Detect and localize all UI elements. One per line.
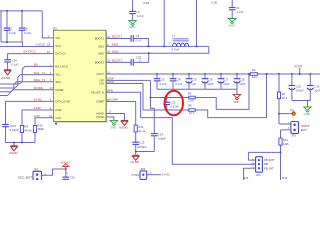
svg-text:GND: GND bbox=[129, 25, 135, 29]
wire C12 to SW2 bbox=[133, 53, 148, 62]
wire MODE bbox=[0, 90, 54, 96]
svg-text:100uF: 100uF bbox=[296, 89, 304, 93]
wire EXTVCC bbox=[8, 54, 54, 60]
svg-text:0.1uF: 0.1uF bbox=[135, 40, 142, 43]
svg-text:EXTVCC: EXTVCC bbox=[23, 50, 36, 54]
svg-text:10uF: 10uF bbox=[239, 82, 246, 86]
node ISP-C21 bbox=[166, 97, 168, 99]
svg-text:JP3: JP3 bbox=[256, 173, 261, 177]
node TP5 bbox=[278, 113, 280, 115]
node FB divider bbox=[280, 152, 282, 154]
wire BOOT1 bbox=[106, 38, 131, 40]
svg-text:C9: C9 bbox=[136, 34, 140, 38]
ground AGND (pin) bbox=[121, 119, 128, 121]
wire AGND stem bbox=[135, 152, 137, 156]
capacitor C15 1uF bbox=[188, 73, 190, 75]
svg-text:C8: C8 bbox=[24, 26, 28, 30]
wire BOOT2 bbox=[106, 61, 131, 63]
svg-text:SYNC: SYNC bbox=[34, 98, 43, 102]
wire VIN rail bbox=[0, 10, 42, 12]
svg-text:49.9: 49.9 bbox=[282, 96, 288, 100]
wire JP3 pin1 to divider bbox=[249, 152, 281, 160]
wire ISP bbox=[106, 79, 151, 81]
capacitor C1 bbox=[231, 0, 233, 8]
wire JP5 to VDDIO bbox=[42, 169, 66, 175]
svg-text:SDA_T1: SDA_T1 bbox=[34, 78, 46, 82]
wire ISN bbox=[106, 83, 143, 85]
svg-text:10.0: 10.0 bbox=[188, 99, 194, 103]
svg-text:R5: R5 bbox=[188, 91, 192, 95]
svg-text:VOUT: VOUT bbox=[294, 65, 303, 69]
ground GND (C2) bbox=[129, 21, 137, 24]
connector JP3 FB select bbox=[256, 157, 263, 173]
svg-text:C13: C13 bbox=[159, 78, 165, 82]
svg-text:SCL: SCL bbox=[55, 73, 61, 77]
capacitor C19 bbox=[309, 73, 311, 75]
resistor R8 10.0 bbox=[189, 109, 195, 112]
svg-text:0.1uF: 0.1uF bbox=[11, 62, 18, 66]
svg-text:GND: GND bbox=[304, 112, 310, 116]
svg-text:SW2: SW2 bbox=[98, 51, 104, 55]
wire SW2 bbox=[106, 46, 209, 53]
svg-text:2.2nF: 2.2nF bbox=[137, 14, 144, 18]
wire to R16 bbox=[280, 153, 282, 181]
svg-text:BOOT2: BOOT2 bbox=[95, 61, 105, 65]
wire COC bbox=[35, 118, 54, 126]
capacitor C16 10uF bbox=[204, 73, 206, 75]
wire SW1 rail bbox=[106, 45, 209, 47]
svg-text:C16: C16 bbox=[207, 78, 213, 82]
connector JP2 VOUT_EXT bbox=[291, 122, 299, 134]
svg-text:21.4k: 21.4k bbox=[138, 129, 145, 133]
wire comp AGND rail bbox=[136, 151, 155, 153]
wire output gnd rail bbox=[292, 100, 310, 102]
capacitor C12 bbox=[130, 59, 132, 66]
wire JP3 pin3 to R15 bbox=[244, 168, 251, 180]
svg-text:VCC: VCC bbox=[55, 44, 61, 48]
capacitor C25 4700pF bbox=[132, 141, 139, 143]
wire AGND rail bbox=[6, 142, 36, 144]
svg-text:VIN: VIN bbox=[55, 36, 60, 40]
wire C9 to SW1 bbox=[133, 39, 148, 47]
wire to AGND bbox=[7, 62, 9, 70]
wire SW1 up (off-sheet) bbox=[163, 0, 165, 46]
resistor R9 bbox=[20, 126, 23, 133]
wire to JP2 pin1 bbox=[279, 123, 291, 125]
svg-text:0.1uF: 0.1uF bbox=[175, 82, 182, 86]
svg-text:VDDIO: VDDIO bbox=[60, 160, 70, 164]
svg-text:EN: EN bbox=[34, 63, 38, 67]
ground AGND (comp) bbox=[132, 154, 139, 156]
svg-text:AGND: AGND bbox=[130, 160, 140, 164]
svg-text:VOUT: VOUT bbox=[96, 72, 104, 76]
svg-text:COMP: COMP bbox=[109, 98, 118, 102]
svg-text:ISN: ISN bbox=[99, 82, 104, 86]
svg-text:COC: COC bbox=[34, 114, 42, 118]
op-amp U1 LT8390A buck-boost controller bbox=[55, 31, 108, 122]
svg-text:BOOT2: BOOT2 bbox=[112, 59, 123, 63]
svg-text:FB_INT: FB_INT bbox=[264, 166, 274, 170]
svg-text:SW2: SW2 bbox=[112, 50, 119, 54]
wire cap GND rail bbox=[157, 88, 237, 90]
svg-text:C18: C18 bbox=[239, 78, 245, 82]
power port VDDIO bbox=[65, 166, 67, 169]
svg-text:SYNC: SYNC bbox=[132, 173, 140, 177]
node VIN-C7 bbox=[6, 10, 8, 12]
resistor R7 49.9 bbox=[278, 73, 280, 75]
wire left edge vertical bbox=[0, 11, 2, 42]
capacitor C21 0.22uF bbox=[166, 98, 168, 103]
svg-text:0.01uF: 0.01uF bbox=[9, 128, 19, 132]
svg-text:SW1: SW1 bbox=[112, 43, 119, 47]
svg-text:10.0: 10.0 bbox=[189, 111, 195, 115]
wire ISP to R5 bbox=[151, 80, 189, 97]
svg-text:VCC_EXT: VCC_EXT bbox=[18, 175, 32, 179]
wire VOUT rail right bbox=[257, 73, 320, 75]
wire FSW bbox=[22, 110, 54, 125]
svg-text:102k: 102k bbox=[283, 142, 290, 146]
svg-text:49.9k: 49.9k bbox=[24, 128, 32, 132]
wire cap bottom bbox=[1, 41, 23, 43]
svg-text:U1: U1 bbox=[53, 27, 57, 31]
svg-text:VDDIO: VDDIO bbox=[35, 43, 45, 47]
ground GND (right) bbox=[304, 107, 312, 110]
svg-text:JP2: JP2 bbox=[291, 134, 296, 138]
svg-text:DITH_SYNC: DITH_SYNC bbox=[55, 100, 70, 104]
svg-text:C15: C15 bbox=[191, 78, 197, 82]
svg-text:1uF: 1uF bbox=[191, 82, 196, 86]
node ISN-C21 bbox=[166, 109, 168, 111]
wire PGND pin bbox=[106, 117, 114, 120]
svg-text:AGND: AGND bbox=[96, 112, 104, 116]
svg-text:COC: COC bbox=[55, 116, 61, 120]
node VIN-C8 bbox=[21, 10, 23, 12]
connector JP4 SYNC bbox=[140, 171, 147, 180]
svg-text:FB_INT_N: FB_INT_N bbox=[91, 90, 104, 94]
capacitor C7 bbox=[6, 11, 8, 28]
svg-text:EN_UVLO: EN_UVLO bbox=[55, 65, 68, 69]
svg-text:PGND: PGND bbox=[96, 115, 104, 119]
svg-text:R16: R16 bbox=[282, 176, 288, 180]
svg-text:BOOT1: BOOT1 bbox=[95, 37, 105, 41]
svg-text:FSW: FSW bbox=[34, 106, 41, 110]
capacitor C20 100uF bbox=[291, 73, 293, 75]
svg-text:GND: GND bbox=[233, 100, 239, 104]
svg-text:150k: 150k bbox=[37, 127, 44, 131]
wire JP2 pin2 bbox=[281, 129, 287, 131]
svg-text:10m: 10m bbox=[252, 75, 258, 79]
capacitor C8 bbox=[21, 11, 23, 28]
svg-text:C2: C2 bbox=[136, 10, 140, 14]
capacitor C46 bbox=[4, 59, 11, 61]
svg-text:4700pF: 4700pF bbox=[137, 145, 147, 149]
svg-text:R8: R8 bbox=[188, 104, 192, 108]
wire R8 to Rsense right bbox=[195, 74, 266, 118]
wire to TP5 bbox=[279, 113, 292, 115]
svg-text:0.1uF: 0.1uF bbox=[159, 82, 166, 86]
wire SCL_T1 bbox=[0, 75, 54, 88]
svg-text:MODE: MODE bbox=[55, 88, 63, 92]
capacitor C26 bbox=[65, 169, 67, 177]
svg-text:R15: R15 bbox=[243, 176, 249, 180]
svg-text:R3: R3 bbox=[252, 68, 256, 72]
svg-text:C1: C1 bbox=[236, 6, 240, 10]
wire GND stem bbox=[307, 101, 309, 107]
svg-text:L1: L1 bbox=[172, 34, 176, 38]
ground GND (C1) bbox=[228, 19, 236, 22]
svg-text:SYNC: SYNC bbox=[162, 173, 171, 177]
wire GND stem bbox=[236, 89, 238, 94]
capacitor C2 bbox=[132, 0, 134, 11]
ground GND (output caps, red) bbox=[233, 95, 241, 98]
capacitor C13 0.1uF bbox=[156, 73, 158, 75]
svg-text:EXT: EXT bbox=[301, 128, 307, 132]
svg-text:0.1uF: 0.1uF bbox=[9, 31, 16, 35]
annotation red circle around C21 bbox=[165, 91, 183, 116]
resistor R11 21.4k bbox=[135, 102, 137, 126]
svg-text:GND: GND bbox=[229, 23, 235, 27]
svg-text:0.1uF: 0.1uF bbox=[24, 31, 31, 35]
wire SDA_T1 bbox=[0, 82, 54, 92]
wire FB to JP3 bbox=[106, 92, 256, 164]
svg-text:AGND: AGND bbox=[119, 126, 129, 130]
wire jog bbox=[22, 42, 24, 47]
svg-text:2.20: 2.20 bbox=[211, 0, 217, 4]
wire VOUT rail left bbox=[106, 73, 250, 75]
wire EN bbox=[0, 66, 54, 84]
connector JP5 VCC_EXT bbox=[33, 171, 42, 182]
svg-text:2.20: 2.20 bbox=[143, 1, 149, 5]
wire COMP bbox=[106, 101, 136, 103]
svg-text:MODE: MODE bbox=[34, 86, 43, 90]
svg-text:C14: C14 bbox=[175, 78, 181, 82]
inductor L1 4.7uH bbox=[173, 38, 189, 40]
svg-text:AGND: AGND bbox=[1, 76, 11, 80]
wire R5 to Rsense left bbox=[195, 74, 249, 109]
svg-text:4.7uH: 4.7uH bbox=[172, 48, 180, 52]
svg-text:10uF: 10uF bbox=[314, 89, 320, 93]
svg-text:AGND: AGND bbox=[9, 151, 19, 155]
wire ISN to R8 bbox=[143, 84, 189, 111]
wire AGND pin bbox=[106, 114, 125, 121]
svg-text:C7: C7 bbox=[9, 26, 13, 30]
wire SYNC bbox=[6, 101, 54, 124]
ground AGND (EXTVCC) bbox=[4, 69, 11, 71]
wire ISP jog to C24 bbox=[151, 98, 155, 134]
svg-text:FSW: FSW bbox=[55, 108, 61, 112]
resistor R12 102k bbox=[279, 138, 282, 145]
capacitor C24 100pF bbox=[150, 97, 152, 99]
svg-text:EXTVCC: EXTVCC bbox=[55, 52, 66, 56]
svg-text:ISN: ISN bbox=[109, 80, 114, 84]
resistor R5 10.0 bbox=[189, 96, 195, 99]
svg-text:0.22uF: 0.22uF bbox=[170, 105, 179, 109]
svg-text:GND: GND bbox=[110, 126, 116, 130]
svg-text:10uF: 10uF bbox=[223, 82, 230, 86]
node C12-SW2 bbox=[148, 52, 150, 54]
svg-text:100pF: 100pF bbox=[158, 137, 166, 141]
svg-text:JP4: JP4 bbox=[140, 167, 145, 171]
wire SYNC bbox=[147, 174, 161, 176]
svg-text:C17: C17 bbox=[223, 78, 229, 82]
wire VIN to pin bbox=[42, 11, 53, 38]
wire AGND stem bbox=[13, 143, 15, 146]
svg-text:C26: C26 bbox=[70, 176, 75, 180]
svg-text:2.2nF: 2.2nF bbox=[237, 10, 244, 14]
svg-text:TP5: TP5 bbox=[290, 108, 295, 112]
capacitor C14 0.1uF bbox=[172, 73, 174, 75]
resistor R3 10m bbox=[250, 73, 257, 76]
svg-text:BOOT1: BOOT1 bbox=[112, 35, 123, 39]
wire VDDIO to VCC pin bbox=[0, 46, 54, 48]
wire SW2 up (off-sheet) bbox=[196, 0, 198, 46]
ground GND (PGND pin) bbox=[110, 120, 118, 123]
svg-text:SCL_T1: SCL_T1 bbox=[34, 71, 46, 75]
svg-text:SW1: SW1 bbox=[98, 45, 104, 49]
wire to R12 bbox=[280, 130, 282, 138]
ground AGND (bottom-left) bbox=[10, 145, 17, 147]
svg-text:COMP: COMP bbox=[96, 100, 104, 104]
capacitor C23 bbox=[2, 124, 9, 126]
resistor R10 bbox=[33, 126, 36, 133]
testpoint TP5 bbox=[292, 112, 296, 116]
svg-text:FB: FB bbox=[109, 88, 113, 92]
svg-text:0.1uF: 0.1uF bbox=[139, 55, 142, 62]
capacitor C9 bbox=[130, 35, 132, 42]
svg-text:JP5: JP5 bbox=[34, 168, 39, 172]
wire VOUT label stem bbox=[299, 68, 301, 74]
capacitor C18 10uF bbox=[236, 73, 238, 75]
svg-text:SDA: SDA bbox=[55, 80, 61, 84]
svg-text:10uF: 10uF bbox=[207, 82, 214, 86]
capacitor C17 10uF bbox=[220, 73, 222, 75]
